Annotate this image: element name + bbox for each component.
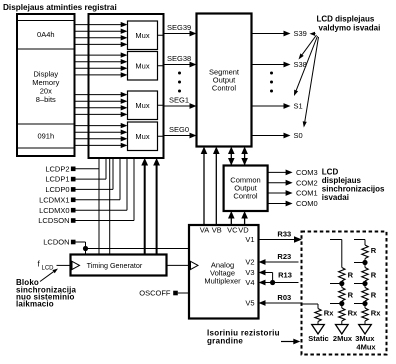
svg-text:Mux: Mux [135, 132, 149, 141]
resistor Rx (2mux) [339, 308, 345, 321]
wire VD (AVM-COC-SOC) [244, 218, 246, 226]
3mux node V5 level [364, 301, 366, 308]
svg-text:Mux: Mux [135, 61, 149, 70]
mux M1 box [128, 21, 158, 50]
svg-text:SEG1: SEG1 [169, 96, 189, 105]
svg-text:SEG0: SEG0 [169, 125, 189, 134]
wires memory to mux M3 (4 lines with arrows) [75, 94, 122, 96]
wire SEG1 mux to segment control [158, 104, 164, 106]
svg-text:4Mux: 4Mux [356, 343, 376, 352]
wires memory to mux M2 (4 lines with arrows) [75, 54, 122, 56]
svg-text:LCDMX0: LCDMX0 [39, 206, 69, 215]
ground (3mux) [364, 321, 366, 325]
svg-text:R23: R23 [277, 252, 291, 261]
svg-text:VC: VC [227, 225, 238, 234]
static ladder stub [303, 303, 319, 305]
AVM input chevron [191, 261, 199, 269]
svg-text:grandine: grandine [207, 337, 243, 346]
svg-text:8–bits: 8–bits [36, 95, 56, 104]
wire SEG39 mux to segment control [158, 34, 164, 36]
timing generator box [71, 255, 167, 276]
wire fLCD to timing generator [57, 264, 71, 266]
3mux node V3/V4 level [364, 281, 366, 288]
timing generator input chevron [72, 261, 80, 269]
wire V3 branch [265, 272, 273, 274]
wire V4 with R13 [265, 282, 299, 284]
svg-text:SEG38: SEG38 [167, 54, 191, 63]
svg-text:2Mux: 2Mux [333, 334, 353, 343]
svg-text:VD: VD [238, 225, 249, 234]
svg-text:laikmacio: laikmacio [16, 299, 54, 308]
wire output COM1 [268, 192, 286, 194]
svg-text:Control: Control [233, 192, 258, 201]
svg-text:COM2: COM2 [296, 178, 318, 187]
analog voltage multiplexer box [189, 225, 259, 319]
common output control box [224, 166, 268, 212]
ground (static) [317, 322, 319, 325]
resistor Rx (3mux) [362, 308, 368, 321]
wire timing generator to AVM [167, 264, 190, 266]
svg-text:V3: V3 [245, 268, 254, 277]
wire output COM3 [268, 171, 286, 173]
svg-text:COM1: COM1 [296, 189, 318, 198]
svg-text:V2: V2 [245, 258, 254, 267]
ellipsis dots between S38 and S1 [270, 72, 273, 75]
svg-text:COM0: COM0 [296, 199, 318, 208]
svg-text:091h: 091h [37, 132, 54, 141]
svg-text:R33: R33 [277, 229, 291, 238]
wire V2 with R23 [265, 261, 299, 263]
display memory register block [17, 14, 75, 156]
resistor R (3mux top) [362, 245, 368, 259]
svg-text:Mux: Mux [135, 101, 149, 110]
svg-text:S39: S39 [294, 29, 307, 38]
svg-text:Multiplexer: Multiplexer [204, 277, 241, 286]
svg-text:R13: R13 [278, 271, 292, 280]
2mux ladder top stub [330, 239, 342, 241]
mux M3 box [128, 91, 158, 120]
arrow to resistor network [281, 341, 294, 343]
mux M2 box [128, 52, 158, 81]
wire VA (AVM to SOC) [203, 153, 205, 225]
svg-text:LCDP2: LCDP2 [45, 164, 69, 173]
svg-text:V5: V5 [245, 299, 254, 308]
arrow bloko to fLCD [40, 272, 54, 282]
svg-text:0A4h: 0A4h [37, 30, 55, 39]
svg-text:isvadai: isvadai [322, 193, 349, 202]
2mux node V5 level [341, 301, 343, 308]
svg-text:R: R [371, 290, 377, 299]
wire output S38 [252, 64, 284, 66]
svg-text:R: R [348, 270, 354, 279]
svg-text:Timing Generator: Timing Generator [87, 261, 143, 270]
svg-text:SEG39: SEG39 [167, 23, 191, 32]
svg-text:LCDMX1: LCDMX1 [39, 195, 69, 204]
wires memory to mux M4 (4 lines with arrows) [75, 125, 122, 127]
svg-text:S1: S1 [294, 102, 303, 111]
svg-text:LCDSON: LCDSON [38, 216, 69, 225]
svg-text:VB: VB [212, 225, 222, 234]
resistor R (3mux mid2) [362, 288, 368, 302]
wire V5 with R03 [265, 302, 301, 304]
svg-text:LCD: LCD [42, 266, 55, 272]
ellipsis dots between SEG38 and SEG1 [178, 72, 181, 75]
svg-text:LCDP0: LCDP0 [45, 185, 69, 194]
resistor Rx (static) [315, 309, 321, 322]
svg-text:Rx: Rx [324, 309, 334, 318]
svg-text:S0: S0 [294, 131, 303, 140]
svg-text:V4: V4 [245, 278, 254, 287]
svg-text:LCD displejaus: LCD displejaus [317, 15, 375, 24]
dashed box external resistor network [302, 232, 387, 355]
svg-text:Displejaus atminties registrai: Displejaus atminties registrai [3, 3, 117, 12]
resistor R (3mux mid1) [362, 268, 368, 282]
svg-text:Static: Static [308, 334, 328, 343]
svg-text:VA: VA [200, 225, 209, 234]
ground (2mux) [341, 321, 343, 325]
wire output COM2 [268, 182, 286, 184]
segment output control box [197, 14, 252, 147]
svg-text:V1: V1 [245, 235, 254, 244]
wires memory to mux M1 (4 lines with arrows) [75, 24, 122, 26]
wire timing to mux container (2) [156, 164, 158, 255]
3mux node V2 level [364, 259, 366, 268]
svg-text:Rx: Rx [348, 309, 358, 318]
wire output S1 [252, 105, 284, 107]
svg-text:COM3: COM3 [296, 168, 318, 177]
svg-text:Mux: Mux [135, 31, 149, 40]
wire mux container to timing generator [109, 158, 111, 255]
wire VC (AVM-COC-SOC) [230, 218, 232, 226]
2mux node V3/V4 level [341, 281, 343, 288]
wire SEG0 mux to segment control [158, 135, 164, 137]
svg-text:OSCOFF: OSCOFF [139, 289, 171, 298]
wire output S39 [252, 33, 284, 35]
svg-text:R03: R03 [277, 293, 291, 302]
wire VB (AVM to SOC) [215, 153, 217, 225]
resistor R (2mux bottom) [339, 288, 345, 302]
svg-text:R: R [348, 290, 354, 299]
mux container box [89, 14, 164, 158]
fan arrows to S outputs [315, 33, 316, 35]
mux M4 box [128, 122, 158, 151]
wire output S0 [252, 135, 284, 137]
svg-text:LCDON: LCDON [43, 238, 69, 247]
wire timing to mux container (1) [144, 164, 146, 255]
svg-text:Rx: Rx [371, 309, 381, 318]
svg-text:R: R [371, 270, 377, 279]
svg-text:LCDP1: LCDP1 [45, 175, 69, 184]
resistor R (2mux top) [339, 268, 345, 282]
wire V1 with R33 to resistor network [259, 239, 296, 241]
svg-text:R: R [371, 246, 377, 255]
wire output COM0 [268, 203, 286, 205]
svg-text:valdymo isvadai: valdymo isvadai [319, 24, 381, 33]
wire SEG38 mux to segment control [158, 65, 164, 67]
3mux ladder top stub [354, 239, 365, 241]
svg-text:Control: Control [212, 83, 237, 92]
